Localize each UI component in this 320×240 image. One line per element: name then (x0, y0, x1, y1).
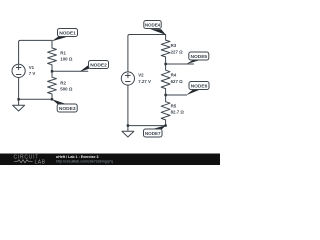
resistor R5 (161, 95, 170, 126)
wire V1 bottom to ground node (18, 77, 20, 99)
wire V2 bottom to ground node (127, 85, 129, 125)
wire node2 stub (52, 70, 88, 72)
svg-text:NODE2: NODE2 (90, 62, 107, 68)
resistor R4 (161, 64, 170, 95)
svg-text:7.27 V: 7.27 V (138, 79, 151, 84)
svg-text:R1: R1 (60, 51, 66, 56)
footer bar (0, 154, 220, 166)
wire bottom left circuit (19, 98, 52, 100)
node NODE4 tail (150, 29, 166, 35)
wire top right circuit V2 to R3 (128, 35, 166, 72)
svg-text:82.7 Ω: 82.7 Ω (171, 110, 185, 115)
node NODE7 box (144, 129, 163, 137)
svg-text:R3: R3 (171, 43, 177, 48)
ground left (13, 99, 25, 111)
node NODE1 box (58, 29, 78, 37)
svg-text:7 V: 7 V (29, 71, 36, 76)
svg-text:V2: V2 (138, 72, 144, 77)
svg-text:R4: R4 (171, 73, 177, 78)
junction dots (17, 63, 166, 127)
node NODE5 box (189, 52, 209, 60)
node NODE1 tail (52, 36, 68, 41)
svg-text:http://circuitlab.com/c9e73abm: http://circuitlab.com/c9e73abmgq7q (56, 159, 113, 163)
svg-text:100 Ω: 100 Ω (60, 57, 73, 62)
svg-text:NODE5: NODE5 (190, 54, 207, 60)
resistor R3 (161, 35, 170, 65)
node NODE3 tail (52, 99, 69, 105)
svg-text:227 Ω: 227 Ω (171, 49, 184, 54)
svg-text:NODE3: NODE3 (59, 106, 76, 112)
node label texts (59, 22, 208, 136)
footer logo CIRCUIT LAB (14, 155, 46, 166)
svg-text:NODE4: NODE4 (145, 22, 161, 27)
node NODE5 tail (186, 60, 199, 64)
node label tails (52, 29, 200, 129)
resistor R2 (48, 71, 57, 99)
svg-text:uHeft / Lab 1 : Exercise 3: uHeft / Lab 1 : Exercise 3 (56, 155, 99, 159)
voltage source V1 (12, 64, 25, 77)
svg-text:R2: R2 (60, 81, 66, 86)
wire node6 stub (166, 94, 187, 96)
svg-text:627 Ω: 627 Ω (171, 79, 184, 84)
svg-text:500 Ω: 500 Ω (60, 87, 73, 92)
node NODE6 box (189, 82, 209, 90)
wire top-left V1 to R1 (19, 40, 52, 64)
svg-text:NODE7: NODE7 (145, 131, 161, 136)
ground right (122, 126, 134, 137)
node NODE4 box (144, 21, 161, 29)
node NODE2 box (89, 61, 109, 69)
footer logo zigzag (14, 160, 33, 163)
wire node5 stub (166, 63, 194, 65)
node NODE2 tail (80, 65, 89, 72)
component labels (29, 43, 185, 114)
svg-text:R5: R5 (171, 103, 177, 108)
node label boxes (57, 21, 209, 138)
resistor R1 (48, 40, 57, 71)
svg-text:V1: V1 (29, 65, 35, 70)
wire bottom right circuit (128, 125, 166, 127)
node NODE3 box (57, 104, 77, 112)
voltage source V2 (121, 72, 134, 85)
svg-text:NODE6: NODE6 (191, 83, 208, 89)
svg-text:NODE1: NODE1 (59, 30, 76, 36)
node NODE7 tail (152, 125, 166, 129)
svg-text:LAB: LAB (35, 160, 46, 166)
node NODE6 tail (186, 90, 199, 96)
